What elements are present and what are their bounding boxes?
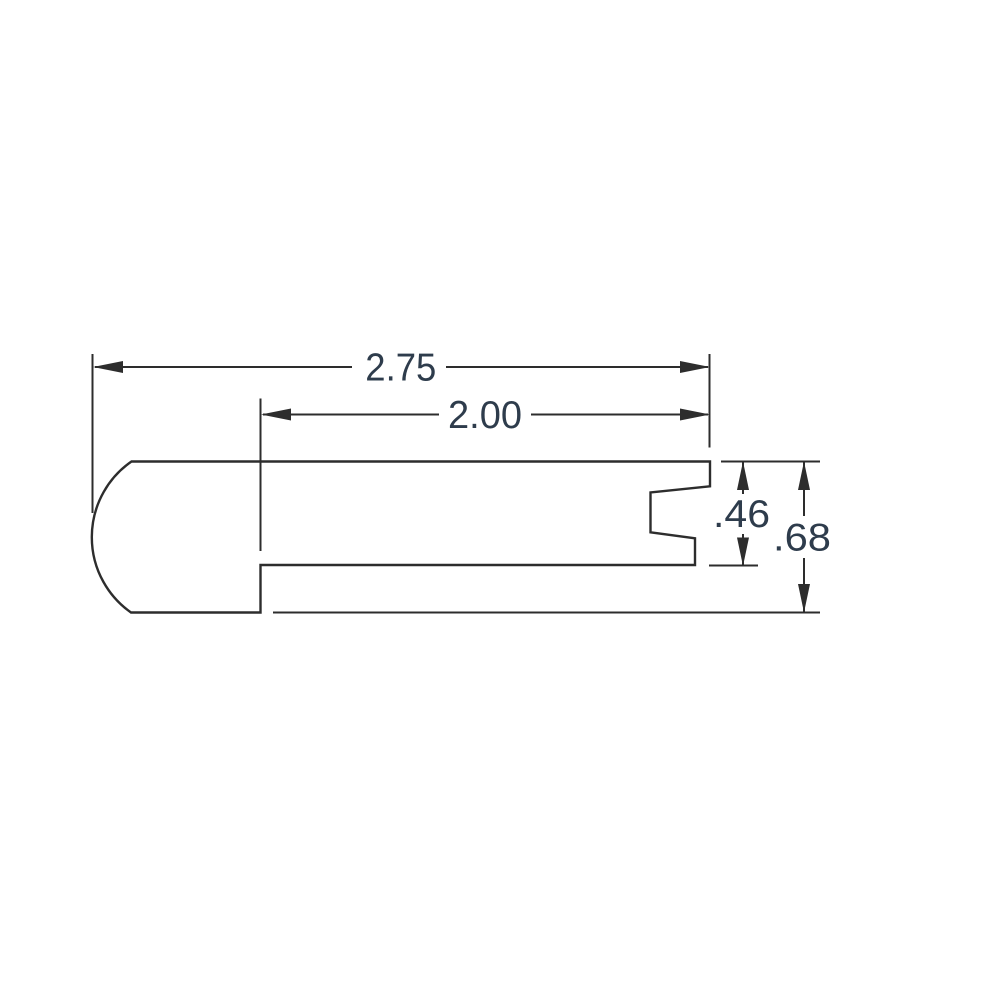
svg-text:2.00: 2.00 bbox=[448, 394, 522, 437]
svg-text:.46: .46 bbox=[713, 493, 770, 536]
svg-text:2.75: 2.75 bbox=[365, 347, 436, 390]
svg-text:.68: .68 bbox=[773, 517, 831, 560]
